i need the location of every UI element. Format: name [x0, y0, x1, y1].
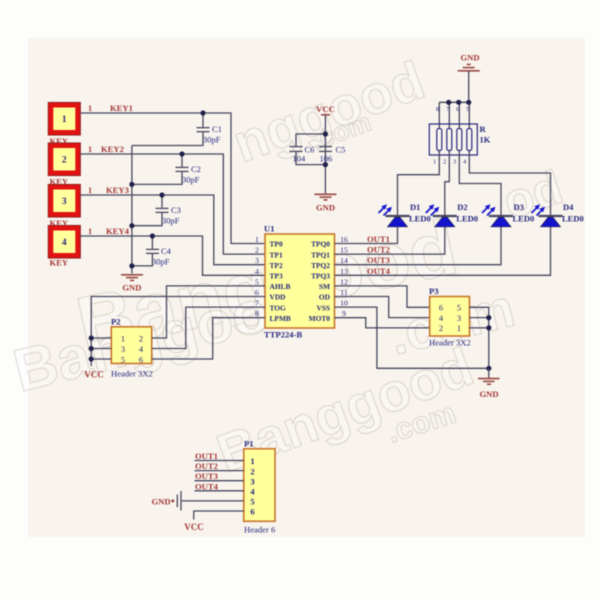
svg-text:11: 11 [340, 288, 348, 297]
capacitor C3 30pF [132, 195, 181, 226]
svg-text:C5: C5 [336, 145, 346, 155]
svg-text:C4: C4 [161, 246, 172, 256]
svg-text:1: 1 [88, 104, 92, 113]
svg-text:1: 1 [62, 115, 67, 125]
svg-text:KEY: KEY [50, 258, 69, 268]
svg-text:6: 6 [255, 288, 259, 297]
node VCC/C6 top [323, 131, 328, 136]
svg-text:2: 2 [439, 324, 443, 333]
R pin numbers top 8 7 6 5 [436, 106, 469, 113]
node P3 ground junction [486, 366, 491, 371]
svg-text:LED0: LED0 [456, 214, 478, 224]
svg-text:104: 104 [293, 154, 307, 164]
node VCC bus pin5 [89, 356, 94, 361]
svg-text:2: 2 [250, 466, 254, 476]
svg-text:OUT3: OUT3 [367, 255, 390, 265]
svg-text:GND: GND [122, 283, 141, 293]
svg-text:3: 3 [457, 314, 461, 323]
svg-text:TP0: TP0 [270, 240, 283, 249]
key switch S4 [48, 225, 80, 267]
wire U1 MOT0 to P3 pin2 [335, 318, 430, 328]
header P2 [111, 317, 153, 379]
svg-text:8: 8 [255, 309, 259, 318]
svg-text:LPMB: LPMB [270, 314, 291, 323]
svg-text:TP1: TP1 [270, 250, 283, 259]
svg-text:8: 8 [436, 106, 439, 113]
wire R2 to LED D2 [445, 151, 450, 216]
node C5/C6 bottom [323, 162, 328, 167]
node VCC bus pin3 [89, 346, 94, 351]
svg-text:VCC: VCC [316, 104, 335, 114]
svg-text:2: 2 [443, 159, 446, 166]
svg-text:P2: P2 [111, 317, 121, 327]
svg-text:OUT4: OUT4 [195, 481, 219, 491]
P1 pin numbers [250, 456, 255, 517]
svg-text:P3: P3 [429, 286, 439, 296]
svg-text:6: 6 [139, 355, 143, 364]
svg-text:5: 5 [250, 497, 254, 507]
header P1 [244, 439, 276, 535]
resistor network R 1K [429, 124, 490, 155]
wire KEY1 to U1 pin 1 [80, 103, 265, 244]
wire U1 OD to P3 pin4 [335, 297, 430, 318]
capacitor C4 30pF [132, 236, 172, 267]
U1 right pin numbers [340, 235, 348, 318]
wire U1 TPQ0 to LED D1 [335, 227, 398, 244]
svg-text:P1: P1 [244, 439, 254, 449]
svg-text:5: 5 [121, 355, 125, 364]
svg-text:D1: D1 [410, 202, 420, 212]
svg-text:C2: C2 [191, 164, 201, 174]
node bus/C4 [129, 263, 134, 268]
svg-text:3: 3 [121, 345, 125, 354]
svg-text:1: 1 [88, 186, 92, 195]
R pin numbers bottom 1 2 3 4 [433, 159, 467, 166]
svg-text:6: 6 [439, 304, 443, 313]
capacitor C2 30pF [132, 154, 201, 185]
svg-text:OUT3: OUT3 [195, 471, 218, 481]
wire U1 SM to P3 pin6 [335, 286, 430, 307]
node C3/KEY3 [159, 192, 164, 197]
U1 right pin names [309, 240, 331, 323]
svg-text:Header 6: Header 6 [244, 525, 276, 535]
svg-text:5: 5 [457, 304, 461, 313]
schematic cream background [28, 38, 585, 537]
svg-text:TOG: TOG [270, 303, 287, 312]
ground symbol key bus [121, 275, 143, 293]
svg-text:2: 2 [255, 246, 259, 255]
wire VCC bus to U1 VDD [91, 297, 265, 367]
wire capacitor ground bus [131, 146, 133, 274]
svg-text:30pF: 30pF [162, 216, 180, 226]
wire P2 pin6 to U1 LPMB [152, 318, 265, 359]
capacitor C1 30pF [132, 113, 222, 146]
LED D1 [379, 202, 431, 227]
svg-text:OUT1: OUT1 [367, 234, 390, 244]
ground symbol below P3 [478, 368, 500, 399]
svg-text:GND: GND [316, 203, 335, 213]
wire KEY2 to U1 pin 2 [80, 144, 265, 254]
svg-text:1: 1 [433, 159, 436, 166]
node bus/C3 [129, 223, 134, 228]
node C4/KEY4 [150, 233, 155, 238]
svg-text:TPQ0: TPQ0 [311, 240, 330, 249]
svg-text:OUT2: OUT2 [195, 461, 218, 471]
svg-text:3: 3 [255, 256, 259, 265]
svg-text:1: 1 [88, 145, 92, 154]
wire U1 VSS to ground [335, 307, 489, 368]
svg-text:GND: GND [152, 496, 171, 506]
svg-text:30pF: 30pF [182, 175, 200, 185]
svg-text:4: 4 [255, 267, 259, 276]
svg-text:OUT1: OUT1 [195, 451, 218, 461]
wire R1 to LED D1 [398, 151, 440, 216]
svg-text:D2: D2 [457, 202, 467, 212]
svg-text:GND: GND [479, 389, 498, 399]
svg-text:1: 1 [457, 324, 461, 333]
svg-text:KEY4: KEY4 [106, 226, 130, 236]
node C2/KEY2 [179, 151, 184, 156]
wire P3 pin5/3/1 ground bus [469, 307, 489, 368]
wire OUT2 to P1 pin2 [195, 461, 244, 471]
svg-text:U1: U1 [264, 224, 275, 234]
svg-text:OUT4: OUT4 [367, 266, 391, 276]
wire P2 pin4 to U1 TOG [152, 307, 265, 348]
svg-text:LED0: LED0 [513, 214, 535, 224]
svg-text:Header 3X2: Header 3X2 [111, 369, 153, 379]
key switch S1 [48, 102, 80, 146]
svg-text:Header 3X2: Header 3X2 [429, 338, 471, 348]
svg-text:30pF: 30pF [152, 257, 170, 267]
svg-text:TPQ2: TPQ2 [311, 261, 330, 270]
svg-text:TP3: TP3 [270, 272, 283, 281]
svg-text:R: R [480, 124, 487, 134]
svg-text:TP2: TP2 [270, 261, 283, 270]
svg-text:1: 1 [255, 235, 259, 244]
svg-text:106: 106 [320, 154, 333, 164]
svg-text:C6: C6 [305, 145, 315, 155]
svg-text:2: 2 [139, 334, 143, 343]
wire P2 pin5 stub [91, 358, 111, 360]
wire P2 pin1 stub [91, 337, 111, 339]
power VCC top [316, 104, 335, 115]
svg-text:KEY1: KEY1 [110, 103, 133, 113]
svg-text:AHLB: AHLB [270, 282, 291, 291]
wire OUT3 to P1 pin3 [195, 471, 244, 481]
svg-text:16: 16 [340, 235, 348, 244]
node C1/KEY1 [200, 110, 205, 115]
svg-text:1: 1 [121, 334, 125, 343]
svg-text:5: 5 [466, 106, 469, 113]
svg-text:VSS: VSS [316, 303, 330, 312]
node P3 pin3 [486, 315, 491, 320]
key switch S2 [48, 143, 80, 187]
node R bus 3 [456, 100, 461, 105]
node R bus 4 [466, 100, 471, 105]
svg-text:TTP224-B: TTP224-B [264, 330, 302, 340]
wire U1 TPQ2 to LED D3 [335, 227, 502, 265]
capacitor C6 104 [290, 145, 326, 165]
svg-text:D3: D3 [514, 202, 524, 212]
wire KEY4 to U1 pin 4 [80, 226, 265, 275]
wire R3 to LED D3 [459, 151, 501, 216]
ground symbol below C5 [315, 194, 337, 212]
svg-text:2: 2 [62, 156, 67, 166]
svg-text:14: 14 [340, 256, 348, 265]
svg-text:5: 5 [255, 277, 259, 286]
P3 pin numbers [439, 304, 461, 334]
node VCC bus pin1 [89, 335, 94, 340]
svg-text:LED0: LED0 [409, 214, 431, 224]
key switch S3 [48, 184, 80, 228]
svg-text:C3: C3 [171, 205, 181, 215]
svg-text:VCC: VCC [184, 522, 204, 532]
svg-text:VDD: VDD [270, 293, 286, 302]
svg-text:1: 1 [88, 227, 92, 236]
svg-text:VCC: VCC [84, 370, 104, 380]
LED D3 [482, 202, 534, 227]
svg-text:9: 9 [342, 309, 346, 318]
svg-text:KEY2: KEY2 [101, 144, 124, 154]
svg-text:D4: D4 [563, 202, 574, 212]
LED D4 [532, 202, 584, 227]
node P3 pin1 [486, 325, 491, 330]
svg-text:3: 3 [453, 159, 456, 166]
U1 left pin names [270, 240, 291, 323]
svg-text:OD: OD [319, 293, 330, 302]
wire KEY3 to U1 pin 3 [80, 185, 265, 265]
svg-text:KEY3: KEY3 [106, 185, 129, 195]
op IC U1 TTP224-B [264, 224, 335, 340]
wire OUT4 to P1 pin4 [195, 481, 244, 491]
ground symbol top right (inverted) [458, 53, 480, 103]
svg-text:1K: 1K [480, 135, 491, 145]
wire OUT1 to P1 pin1 [195, 451, 244, 461]
node bus/C2 [129, 182, 134, 187]
P2 pin numbers [121, 334, 144, 364]
wire resistor top bus [439, 102, 469, 128]
svg-text:30pF: 30pF [203, 135, 221, 145]
LED D2 [426, 202, 478, 227]
svg-text:1: 1 [250, 456, 254, 466]
wire U1 TPQ3 to LED D4 [335, 227, 551, 275]
capacitor C5 106 [319, 145, 345, 164]
wire C6 branch [296, 134, 325, 146]
svg-text:TPQ3: TPQ3 [311, 272, 330, 281]
wire P2 pin3 stub [91, 348, 111, 350]
wire VCC to decoupling caps [324, 115, 326, 194]
svg-text:6: 6 [250, 507, 255, 517]
svg-text:C1: C1 [212, 124, 222, 134]
svg-text:13: 13 [340, 267, 348, 276]
svg-text:3: 3 [62, 197, 67, 207]
wire R4 to LED D4 [469, 151, 550, 216]
svg-text:10: 10 [340, 299, 348, 308]
node R bus 2 [446, 100, 451, 105]
svg-text:LED0: LED0 [562, 214, 584, 224]
svg-text:TPQ1: TPQ1 [311, 250, 330, 259]
svg-text:15: 15 [340, 246, 348, 255]
svg-text:4: 4 [250, 487, 255, 497]
wire P2 pin2 to U1 AHLB [152, 286, 265, 338]
svg-text:3: 3 [250, 476, 254, 486]
svg-text:4: 4 [62, 238, 67, 248]
svg-text:MOT0: MOT0 [309, 314, 331, 323]
svg-text:GND: GND [460, 53, 479, 63]
wire U1 TPQ1 to LED D2 [335, 227, 445, 254]
svg-text:OUT2: OUT2 [367, 245, 390, 255]
svg-text:7: 7 [255, 299, 259, 308]
power ground P1 pin5 [152, 491, 244, 511]
U1 left pin numbers [255, 235, 259, 318]
svg-text:12: 12 [340, 277, 348, 286]
header P3 [429, 286, 471, 348]
svg-text:SM: SM [319, 282, 330, 291]
wire VCC to P1 pin6 [184, 511, 244, 532]
